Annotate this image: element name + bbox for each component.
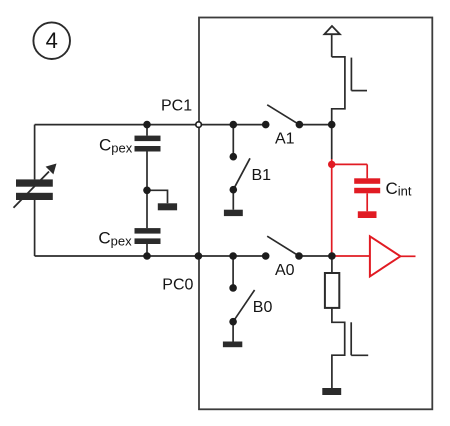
svg-text:B0: B0 <box>253 299 273 316</box>
svg-text:B1: B1 <box>252 167 272 184</box>
svg-text:Cpex: Cpex <box>98 229 132 249</box>
svg-text:A1: A1 <box>275 131 295 148</box>
svg-text:Cint: Cint <box>386 179 412 199</box>
svg-text:PC0: PC0 <box>162 277 193 294</box>
svg-text:Cpex: Cpex <box>99 136 133 156</box>
svg-text:PC1: PC1 <box>161 98 192 115</box>
svg-text:A0: A0 <box>275 262 295 279</box>
svg-text:4: 4 <box>46 28 58 53</box>
